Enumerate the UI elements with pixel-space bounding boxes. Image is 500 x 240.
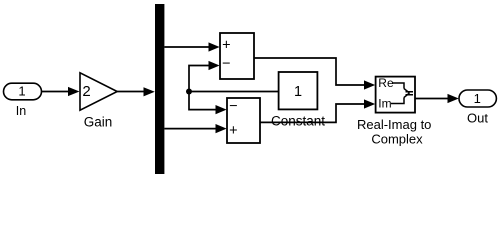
- wire Sum2 output to Im input: [260, 104, 367, 122]
- gain block Gain (triangle, value 2): [80, 73, 117, 110]
- svg-text:Out: Out: [467, 110, 488, 125]
- svg-text:Complex: Complex: [371, 132, 423, 147]
- wire Constant output to junction: [189, 91, 279, 93]
- wire Sum1 output to Re input: [254, 58, 367, 85]
- svg-text:Real-Imag to: Real-Imag to: [357, 117, 431, 132]
- arrowhead at Gain input: [68, 87, 80, 96]
- icon converge chevron: [404, 89, 410, 98]
- svg-text:2: 2: [82, 83, 90, 100]
- svg-text:Gain: Gain: [84, 114, 113, 129]
- arrowhead at Sum1 plus input: [209, 42, 220, 51]
- arrowhead at Re input: [364, 80, 375, 89]
- icon equals ticks: [406, 92, 414, 95]
- wire Demux out2 to Sum2 plus input: [164, 128, 218, 130]
- sum block Sum2 (- +): [227, 98, 260, 143]
- icon Re lead: [392, 83, 404, 89]
- Real-Imag to Complex block: [376, 76, 415, 112]
- icon Im lead: [391, 97, 404, 103]
- constant block Constant (value 1): [279, 72, 318, 109]
- junction dot: [186, 89, 192, 95]
- demux bar (black vertical bar): [155, 4, 164, 174]
- svg-text:−: −: [222, 56, 230, 72]
- wire Real-Imag to Complex output to Out port: [415, 98, 450, 100]
- wire junction up to Sum1 minus input: [189, 66, 211, 92]
- svg-text:−: −: [229, 98, 237, 114]
- outport Out1 oval: [459, 90, 496, 107]
- label Real-Imag to Complex: [357, 117, 431, 147]
- wire junction down to Sum2 minus input: [189, 92, 218, 110]
- svg-text:1: 1: [294, 84, 302, 100]
- svg-text:Re: Re: [378, 76, 394, 90]
- wire Gain to Demux bar: [117, 91, 146, 93]
- wire Demux out1 to Sum1 plus input: [164, 46, 211, 48]
- arrowhead at Sum1 minus input: [209, 61, 220, 70]
- arrowhead at Sum2 minus input: [216, 105, 227, 114]
- svg-text:Im: Im: [378, 97, 391, 111]
- svg-text:1: 1: [18, 84, 25, 99]
- svg-text:+: +: [229, 123, 237, 139]
- arrowhead at Sum2 plus input: [216, 124, 227, 133]
- arrowhead at Out port: [448, 94, 459, 103]
- svg-text:Constant: Constant: [271, 114, 325, 129]
- svg-text:+: +: [222, 37, 230, 53]
- svg-text:1: 1: [474, 91, 481, 106]
- arrowhead at Demux input: [144, 87, 155, 96]
- inport In1 oval: [4, 83, 42, 100]
- sum block Sum1 (+ -): [220, 33, 254, 79]
- svg-text:In: In: [16, 104, 26, 118]
- wire In to Gain: [42, 91, 71, 93]
- arrowhead at Im input: [364, 99, 375, 108]
